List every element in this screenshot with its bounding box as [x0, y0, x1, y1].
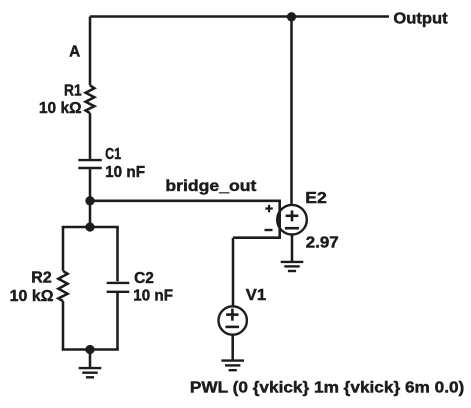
wire parallel section bottom rail	[62, 348, 119, 351]
capacitor C1	[78, 160, 102, 168]
wire C2 lower lead	[116, 293, 119, 350]
wire E2 - control input horizontal	[233, 236, 281, 239]
label + control pin of E2	[265, 205, 273, 213]
svg-text:bridge_out: bridge_out	[165, 178, 257, 195]
svg-text:10 kΩ: 10 kΩ	[39, 100, 82, 117]
wire from Output node down to E2	[290, 17, 293, 206]
wire R2 upper lead	[62, 227, 65, 271]
junction dot parallel bottom	[85, 345, 94, 354]
svg-text:10 kΩ: 10 kΩ	[10, 288, 54, 305]
svg-text:10 nF: 10 nF	[133, 287, 173, 304]
voltage source V1	[219, 306, 247, 334]
junction dot on top rail at Output branch	[287, 12, 296, 21]
ground (E2)	[281, 262, 304, 271]
svg-text:R2: R2	[31, 270, 52, 287]
svg-text:E2: E2	[305, 190, 327, 207]
wire C2 upper lead	[116, 227, 119, 281]
svg-text:PWL (0 {vkick} 1m {vkick} 6m 0: PWL (0 {vkick} 1m {vkick} 6m 0.0)	[190, 380, 464, 397]
svg-text:10 nF: 10 nF	[105, 164, 145, 181]
ground (R2 C2)	[79, 368, 102, 377]
wire top rail (node A to Output)	[90, 15, 389, 18]
wire V1 to ground	[231, 335, 234, 361]
junction dot parallel top	[85, 222, 94, 231]
svg-text:V1: V1	[246, 287, 267, 304]
wire E2 to ground	[291, 235, 294, 262]
wire node A vertical down to R1	[89, 17, 92, 86]
wire E2 control bracket vertical	[278, 201, 281, 238]
junction dot bridge_out node	[85, 196, 94, 205]
svg-text:Output: Output	[393, 10, 448, 27]
svg-text:2.97: 2.97	[306, 234, 339, 251]
wire R1 to C1	[89, 113, 92, 159]
wire C1 to bridge_out node	[89, 169, 92, 228]
vcvs E2	[277, 205, 307, 235]
svg-text:A: A	[69, 43, 80, 60]
capacitor C2	[107, 283, 130, 292]
wire E2 - control to V1	[232, 238, 235, 307]
wire parallel bottom to ground	[89, 350, 92, 369]
wire bridge_out to E2 + control input	[90, 200, 281, 203]
label - control pin of E2	[265, 229, 273, 231]
svg-text:C2: C2	[134, 270, 154, 287]
wire R2 lower lead	[62, 301, 65, 349]
resistor R1	[86, 85, 95, 113]
svg-text:R1: R1	[64, 83, 82, 100]
ground (V1)	[221, 361, 244, 371]
resistor R2	[58, 271, 67, 301]
svg-text:C1: C1	[105, 146, 121, 163]
wire parallel section top rail	[62, 226, 119, 229]
